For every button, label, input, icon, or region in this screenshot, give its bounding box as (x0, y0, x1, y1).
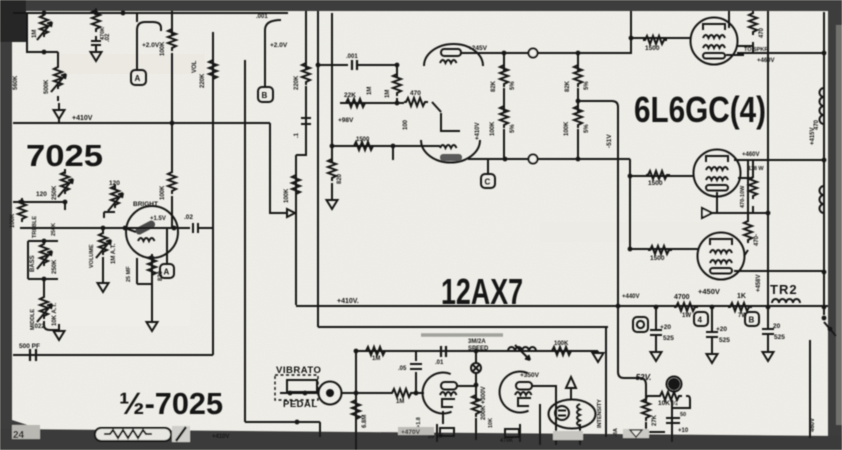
wire 748 top (747, 160, 749, 222)
arrow end (287, 209, 295, 217)
wire down (319, 422, 321, 437)
tube V8 (698, 233, 745, 280)
grid bracket t2 (518, 398, 531, 406)
resistor 1M v (393, 72, 401, 96)
wire to box C (487, 159, 489, 174)
resistor 1500 c (648, 246, 672, 254)
wire hook box B (265, 20, 281, 87)
node dot (414, 391, 419, 396)
pot volume (102, 228, 104, 234)
node dot (766, 305, 771, 310)
svg-text:7025: 7025 (26, 138, 103, 173)
svg-text:.01: .01 (435, 360, 444, 366)
wire 608 (605, 328, 607, 437)
wire (171, 196, 173, 228)
wire divider (13, 122, 270, 124)
resistor 82K (500, 63, 508, 87)
node dot (576, 51, 581, 56)
svg-text:250K: 250K (52, 259, 58, 274)
wire 630 stair (629, 159, 631, 249)
node dot (316, 63, 321, 68)
OT coil right a (820, 88, 825, 124)
wire (57, 52, 59, 66)
svg-text:TO SPKR: TO SPKR (744, 47, 768, 53)
svg-text:+2.0V: +2.0V (270, 42, 288, 49)
node dot (295, 420, 300, 425)
cathode loop (137, 258, 152, 284)
wire grid top (631, 37, 691, 39)
svg-text:1M A.T.: 1M A.T. (111, 243, 117, 264)
ground (147, 315, 158, 331)
scan shadow bar (421, 333, 503, 337)
svg-text:470: 470 (410, 90, 421, 97)
wire V7 heater link (738, 177, 753, 179)
tube V4 top half (424, 44, 483, 66)
patch 24 (12, 425, 40, 439)
svg-text:VOL: VOL (192, 60, 198, 73)
svg-text:100K: 100K (10, 213, 16, 228)
svg-text:50: 50 (680, 412, 686, 418)
svg-text:100K: 100K (160, 41, 166, 56)
node dot (628, 174, 633, 179)
cap .02 coupling (193, 223, 198, 233)
svg-text:½-7025: ½-7025 (119, 386, 223, 421)
plate pill t1 (441, 382, 457, 390)
svg-text:B: B (262, 91, 268, 100)
wire 245 corner (245, 421, 320, 423)
resistor 100K vertical (168, 27, 176, 51)
svg-text:.1: .1 (294, 132, 300, 138)
resistor 100K v at 172 (168, 170, 176, 194)
svg-text:500K: 500K (44, 79, 50, 94)
wire (166, 228, 168, 264)
wire stair 270 (270, 123, 287, 213)
svg-text:+98V: +98V (338, 117, 354, 124)
node dot (628, 247, 633, 252)
junction box B2 (745, 312, 759, 326)
tube V2 7025 (126, 206, 178, 258)
svg-text:250K: 250K (51, 223, 57, 236)
junction box A (131, 70, 146, 85)
wire jack right (342, 392, 392, 394)
svg-text:24: 24 (13, 430, 25, 441)
wire +410V line (296, 305, 620, 307)
ground (98, 276, 109, 292)
node dot (42, 50, 47, 55)
node dot (766, 211, 771, 216)
dashed pedal box (275, 375, 318, 400)
marker circled (471, 363, 481, 373)
resistor 1500 a (643, 36, 667, 44)
resistor 100K osc (550, 347, 574, 355)
wire grid line (340, 102, 404, 104)
ground (91, 45, 102, 61)
resistor 220K (302, 61, 310, 85)
svg-text:460V: 460V (810, 418, 816, 432)
svg-text:5%: 5% (510, 124, 516, 133)
node dot (354, 349, 359, 354)
svg-text:22K: 22K (344, 92, 356, 99)
node dot (150, 256, 155, 261)
wire right edge v (809, 340, 811, 438)
svg-text:250K: 250K (52, 185, 58, 200)
wire 356 down (355, 351, 357, 450)
ground arrow left (702, 208, 712, 218)
node dot (391, 144, 396, 149)
svg-text:82K: 82K (565, 80, 571, 92)
node dot (502, 51, 507, 56)
resistor 820 v (328, 157, 336, 181)
svg-text:.001: .001 (256, 14, 268, 20)
capacitor .02 (91, 36, 101, 49)
wire plate top to bus (461, 52, 631, 54)
cap bias (666, 418, 680, 423)
cap .001 (352, 60, 357, 70)
wire to 420 (416, 351, 424, 393)
wire t2 plate (532, 386, 556, 445)
node dot (63, 200, 68, 205)
jack circle (319, 382, 342, 405)
svg-text:+440V: +440V (622, 294, 640, 300)
svg-text:220K: 220K (294, 75, 300, 90)
wire 504 chain (503, 53, 505, 159)
svg-text:200K +300V: 200K +300V (481, 386, 487, 420)
node dot (303, 391, 308, 396)
wire t1 plate (457, 385, 476, 387)
pot P1 (40, 13, 48, 37)
node dot (20, 200, 25, 205)
wire hook to box A (137, 22, 161, 70)
svg-text:10K A.T.: 10K A.T. (52, 303, 58, 326)
wire (396, 98, 398, 103)
node dot (42, 277, 47, 282)
grid L internal (441, 113, 460, 131)
border frame left (0, 0, 12, 450)
node dot (822, 270, 827, 275)
gnd mark border (630, 430, 642, 437)
svg-text:+470V: +470V (401, 429, 421, 436)
svg-text:27K: 27K (652, 414, 658, 426)
svg-text:SPEED: SPEED (468, 346, 489, 352)
svg-text:470K: 470K (500, 438, 513, 444)
wire coupling top (318, 64, 348, 66)
screen resistor v (749, 11, 757, 35)
wire osc top (356, 350, 591, 352)
node dot (576, 99, 581, 104)
wire pedal (280, 392, 319, 394)
wire bus 245 (244, 60, 246, 422)
node dot (822, 51, 827, 56)
marker circle (529, 49, 538, 58)
ldr squiggle (577, 404, 580, 445)
svg-text:+245V: +245V (468, 45, 488, 52)
resistor 200K v (472, 393, 480, 417)
plate pill top (441, 49, 461, 56)
patch b3 (623, 429, 649, 438)
wire tail (332, 145, 440, 147)
svg-text:C: C (485, 178, 491, 187)
svg-text:525: 525 (774, 334, 785, 341)
ground mid (54, 324, 65, 340)
resistor 1500 b (646, 171, 670, 179)
svg-text:TREBLE: TREBLE (32, 216, 38, 238)
wire loop left (27, 13, 58, 52)
wire vertical 172 (171, 11, 173, 35)
lamp in ellipse (555, 406, 569, 420)
node dot (121, 11, 126, 16)
tube V6 (691, 18, 738, 65)
wire (151, 284, 153, 318)
border frame bottom-left blob (12, 420, 52, 433)
TR2 coil (772, 299, 800, 303)
svg-text:6L6GC(4): 6L6GC(4) (634, 89, 766, 130)
resistor 1K (728, 303, 752, 311)
filter cap 1 (650, 307, 662, 345)
wire bus 306 (296, 11, 306, 155)
squiggle t2 (515, 392, 532, 395)
ground f2 (707, 347, 718, 363)
wire (13, 169, 65, 210)
pill resistor bottom (95, 428, 171, 441)
node dot (576, 157, 581, 162)
node dot (474, 349, 479, 354)
svg-text:-8A: -8A (613, 428, 619, 437)
pot P2 (54, 65, 62, 89)
ground (54, 103, 65, 119)
wire (57, 96, 59, 101)
patch b1 (398, 427, 434, 435)
OT coil right b (820, 186, 825, 213)
node dot (629, 36, 634, 41)
svg-text:4700: 4700 (674, 294, 690, 301)
svg-text:+10: +10 (678, 428, 689, 434)
svg-text:+1.8: +1.8 (416, 417, 422, 428)
resistor 820 (148, 254, 156, 278)
svg-text:+2.0V: +2.0V (142, 42, 160, 49)
patch b2 (553, 431, 583, 440)
svg-text:560K: 560K (13, 75, 19, 90)
svg-text:A: A (164, 268, 170, 277)
wire cathode bottom (734, 270, 824, 272)
svg-text:+410V: +410V (212, 434, 230, 440)
pedal inner box (287, 380, 317, 392)
svg-text:-51V: -51V (606, 134, 613, 148)
grid squiggle 2 (440, 145, 457, 148)
slash (172, 426, 190, 442)
node dot (395, 101, 400, 106)
svg-text:B: B (749, 316, 755, 325)
junction box 4 (694, 312, 708, 326)
cap box t1 (440, 428, 454, 436)
svg-text:1M: 1M (385, 90, 391, 98)
svg-text:1500: 1500 (645, 45, 660, 52)
triode T2 (500, 372, 529, 413)
wire 476 (475, 351, 477, 385)
svg-text:20: 20 (773, 323, 781, 330)
resistor 100K b (574, 104, 582, 128)
node dot (101, 226, 106, 231)
node dot (710, 305, 715, 310)
svg-text:10K: 10K (488, 418, 494, 428)
wire into grid (432, 102, 441, 112)
cap .01 osc (441, 346, 446, 357)
svg-text:1500: 1500 (648, 180, 663, 187)
svg-text:+450V: +450V (698, 287, 720, 296)
wire bus 332 (331, 13, 333, 163)
up arrow (566, 377, 576, 400)
node dot (503, 157, 508, 162)
svg-text:220K: 220K (200, 73, 206, 88)
node dot (654, 305, 659, 310)
svg-text:5%: 5% (510, 81, 516, 90)
wire 500pf line (13, 354, 213, 356)
pot middle (40, 295, 48, 319)
svg-text:1500: 1500 (650, 255, 665, 262)
svg-text:1500: 1500 (356, 137, 370, 143)
pot 250K (61, 170, 69, 194)
junction box C (481, 174, 495, 188)
wire loop (28, 241, 58, 279)
wire plate bottom line (468, 158, 630, 160)
resistor 1M osc (364, 347, 388, 355)
svg-text:1M: 1M (367, 87, 373, 95)
border frame corner blob (0, 0, 26, 42)
wire screen bus (619, 305, 828, 307)
grid stopper diag (125, 228, 136, 232)
resistor 2.2M v (352, 398, 360, 422)
svg-text:+20: +20 (716, 326, 727, 333)
resistor 22K h (344, 99, 368, 107)
border frame top (0, 0, 842, 11)
wire plate mid (734, 159, 824, 161)
svg-text:500 PF: 500 PF (19, 343, 40, 350)
node dot (42, 11, 47, 16)
junction box A2 (160, 264, 174, 278)
svg-text:1M: 1M (372, 356, 380, 362)
svg-text:+20: +20 (660, 324, 671, 331)
node dot (474, 383, 479, 388)
tube V7 (694, 150, 741, 197)
resistor 1M h (390, 389, 414, 397)
cap .05 (410, 364, 422, 369)
svg-text:.001: .001 (346, 54, 358, 60)
junction box 0 (633, 317, 648, 332)
svg-text:525: 525 (663, 335, 674, 342)
resistor 470 10W v (749, 175, 757, 199)
small stubs bottom (437, 424, 520, 442)
wire vertical 213 (212, 32, 214, 355)
svg-text:3M/2A: 3M/2A (468, 339, 486, 345)
switch right (824, 307, 836, 336)
svg-text:25 MF: 25 MF (126, 266, 132, 282)
wire 476 down (475, 385, 477, 440)
wire (44, 321, 59, 331)
arrow down end (590, 351, 604, 362)
resistor 100K tail v (292, 173, 300, 197)
junction box B (258, 87, 273, 102)
svg-text:.02: .02 (105, 33, 111, 42)
wire (102, 257, 104, 276)
svg-text:.022: .022 (33, 324, 45, 330)
speed pot (508, 347, 536, 351)
marker circle 2 (529, 155, 538, 164)
wire bus 824 (823, 12, 825, 306)
node dot (616, 304, 621, 309)
lamp dot (669, 379, 679, 389)
wire lower line (318, 326, 608, 328)
svg-text:BASS: BASS (30, 255, 36, 272)
svg-text:100: 100 (403, 119, 409, 130)
wire -51V feed (578, 101, 646, 398)
plate pill t2 (516, 382, 532, 390)
svg-text:+458V: +458V (756, 274, 762, 292)
tube V4 bottom half (421, 140, 480, 163)
resistor tail h (352, 142, 376, 150)
svg-text:-52V.: -52V. (633, 373, 651, 382)
svg-text:82K: 82K (491, 80, 497, 92)
svg-text:100K: 100K (554, 341, 569, 347)
svg-text:120: 120 (36, 191, 47, 198)
svg-text:.02: .02 (184, 214, 193, 221)
wire V6 plate right (737, 52, 824, 54)
border frame right (828, 0, 842, 450)
resistor 100K (500, 104, 508, 128)
wire (171, 53, 173, 173)
wire grid bottom (630, 248, 699, 250)
wire down from tail (392, 146, 394, 160)
svg-text:100K: 100K (284, 188, 290, 203)
svg-text:525: 525 (719, 337, 730, 344)
wire V6 plate top (728, 11, 730, 28)
grid squiggle (440, 60, 457, 63)
node dot (123, 226, 128, 231)
svg-text:+350V: +350V (520, 372, 540, 379)
filter cap 2 (706, 307, 718, 347)
pot treble (111, 184, 119, 208)
svg-text:120: 120 (109, 180, 120, 187)
wire top bus (13, 12, 288, 14)
node dot (354, 391, 359, 396)
cathode t1 (442, 411, 444, 424)
node dot (42, 239, 47, 244)
cap box t2 (505, 429, 519, 437)
resistor 68K vertical (92, 8, 100, 32)
wire (396, 65, 398, 78)
wire (331, 183, 333, 193)
wire V6 cathode link (726, 54, 744, 56)
wire t2 extra (539, 404, 541, 445)
wire V6 heater link (736, 45, 753, 47)
svg-text:100K: 100K (160, 185, 166, 200)
svg-text:1M: 1M (32, 30, 38, 38)
intensity ellipse (549, 400, 596, 429)
resistor 470 h (404, 98, 428, 106)
wire bus 768 (767, 11, 769, 307)
wire 578 chain (577, 53, 579, 159)
wire grid mid (630, 175, 694, 177)
svg-text:1M: 1M (396, 399, 404, 405)
svg-text:820: 820 (337, 173, 343, 184)
svg-text:+415V: +415V (810, 127, 816, 145)
svg-text:TR2: TR2 (770, 282, 798, 297)
node dot (288, 391, 293, 396)
wire (43, 279, 45, 296)
svg-text:100K: 100K (564, 121, 570, 136)
svg-text:1K: 1K (737, 293, 746, 300)
wire bus 318 (317, 11, 319, 327)
svg-text:+460V: +460V (757, 58, 775, 64)
node dot (172, 226, 177, 231)
